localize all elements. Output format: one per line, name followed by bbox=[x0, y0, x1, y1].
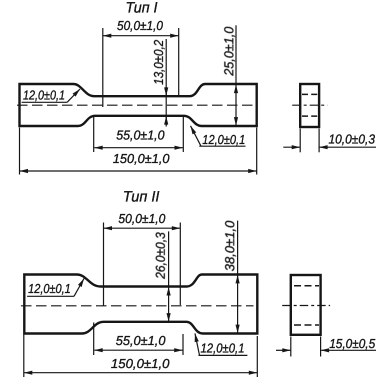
dim 150.0 I: extension lines bbox=[19, 128, 21, 175]
dim 50.0 I: dimension line bbox=[103, 35, 179, 37]
svg-text:25,0±1,0: 25,0±1,0 bbox=[221, 26, 236, 77]
svg-text:26,0±0,3: 26,0±0,3 bbox=[153, 231, 168, 279]
dim 55.0 II: dimension line bbox=[94, 349, 183, 351]
label 12.0 II left: leader bbox=[74, 279, 84, 297]
dim 13.0 I: line bbox=[165, 39, 167, 127]
svg-text:12,0±0,1: 12,0±0,1 bbox=[28, 281, 71, 296]
label 12.0 I left: leader bbox=[67, 89, 80, 102]
svg-text:12,0±0,1: 12,0±0,1 bbox=[23, 87, 65, 102]
label 12.0 II right: leader bbox=[195, 333, 200, 355]
side view II hidden line upper bbox=[294, 285, 319, 287]
dim 50.0 II: dimension line bbox=[104, 227, 181, 229]
svg-text:12,0±0,1: 12,0±0,1 bbox=[202, 132, 245, 147]
dim 15.0 II: dimension line with outside arrows bbox=[276, 349, 291, 351]
dim 55.0 II: extension lines bbox=[93, 323, 95, 356]
svg-text:150,0±1,0: 150,0±1,0 bbox=[111, 356, 170, 371]
label 12.0 II left: shelf bbox=[27, 295, 74, 297]
side view I centerline bbox=[292, 104, 327, 106]
side view II centerline bbox=[282, 305, 330, 307]
svg-text:Тип I: Тип I bbox=[126, 0, 158, 17]
label 12.0 I right: leader bbox=[191, 126, 202, 146]
side view II hidden line lower bbox=[294, 324, 319, 326]
svg-text:50,0±1,0: 50,0±1,0 bbox=[118, 211, 166, 226]
side view II rectangle bbox=[291, 275, 321, 335]
svg-text:Тип II: Тип II bbox=[123, 189, 159, 206]
dim 50.0 II: extension lines bbox=[103, 223, 105, 307]
svg-text:12,0±0,1: 12,0±0,1 bbox=[201, 340, 245, 355]
dim 150.0 II: dimension line bbox=[24, 372, 257, 374]
dim 55.0 I: extension lines bbox=[93, 117, 95, 153]
specimen I outline bbox=[20, 84, 257, 126]
dim 38.0 II: line bbox=[237, 221, 239, 275]
svg-text:10,0±0,3: 10,0±0,3 bbox=[329, 131, 376, 146]
dim 26.0 II: line bbox=[168, 231, 170, 287]
dim 150.0 II: extension lines bbox=[23, 335, 25, 377]
specimen II outline bbox=[24, 275, 257, 334]
svg-text:55,0±1,0: 55,0±1,0 bbox=[116, 128, 165, 143]
dim 13.0 I: arrows bbox=[165, 87, 167, 96]
centerline specimen II bbox=[21, 305, 254, 307]
dim 150.0 I: dimension line bbox=[20, 170, 257, 172]
svg-text:15,0±0,5: 15,0±0,5 bbox=[329, 336, 376, 351]
svg-text:55,0±1,0: 55,0±1,0 bbox=[116, 333, 167, 348]
svg-text:13,0±0,2: 13,0±0,2 bbox=[151, 39, 166, 85]
centerline specimen I bbox=[17, 104, 254, 106]
dim 10.0 I: extension lines bbox=[299, 129, 301, 153]
dim 15.0 II: extension lines bbox=[290, 337, 292, 357]
label 12.0 II right: shelf bbox=[199, 354, 248, 356]
side view I rectangle bbox=[300, 84, 319, 127]
dim 10.0 I: dimension line with outside arrows bbox=[283, 146, 300, 148]
dim 55.0 I: dimension line bbox=[94, 147, 183, 149]
side view I hidden line upper bbox=[302, 93, 318, 95]
svg-text:150,0±1,0: 150,0±1,0 bbox=[113, 151, 170, 166]
label 12.0 I left: shelf bbox=[22, 101, 68, 103]
dim 25.0 I: line bbox=[235, 25, 237, 84]
dim 50.0 I: extension lines bbox=[102, 28, 104, 107]
label 12.0 I right: shelf bbox=[199, 145, 245, 147]
svg-text:38,0±1,0: 38,0±1,0 bbox=[222, 220, 237, 271]
side view I hidden line lower bbox=[302, 115, 318, 117]
svg-text:50,0±1,0: 50,0±1,0 bbox=[117, 18, 164, 33]
